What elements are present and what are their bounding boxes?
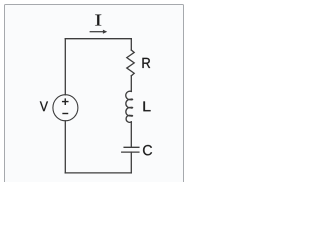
minus sign in source: [62, 113, 68, 115]
wire right top stub: [130, 39, 132, 50]
wire top: [65, 38, 131, 40]
resistor R: [127, 50, 134, 76]
capacitor C top plate: [124, 146, 139, 148]
wire inductor to capacitor: [130, 122, 132, 147]
plus sign in source: [62, 98, 69, 105]
label C: [143, 145, 152, 155]
label I: [95, 15, 101, 26]
wire capacitor to bottom: [130, 152, 132, 173]
wire bottom: [65, 172, 131, 174]
inductor L coil: [126, 91, 132, 122]
label V: [40, 101, 48, 111]
label R: [142, 58, 150, 68]
inductor loop knob 1: [130, 98, 133, 100]
voltage source V circle: [53, 95, 78, 121]
panel frame: [4, 4, 184, 196]
current arrow: [90, 30, 108, 34]
wire resistor to inductor: [130, 76, 132, 92]
capacitor C bottom plate: [122, 151, 139, 153]
inductor loop knob 2: [130, 107, 133, 109]
inductor loop knob 3: [130, 115, 133, 117]
wire left upper: [64, 39, 66, 95]
wire left lower: [64, 121, 66, 173]
label L: [143, 101, 150, 111]
